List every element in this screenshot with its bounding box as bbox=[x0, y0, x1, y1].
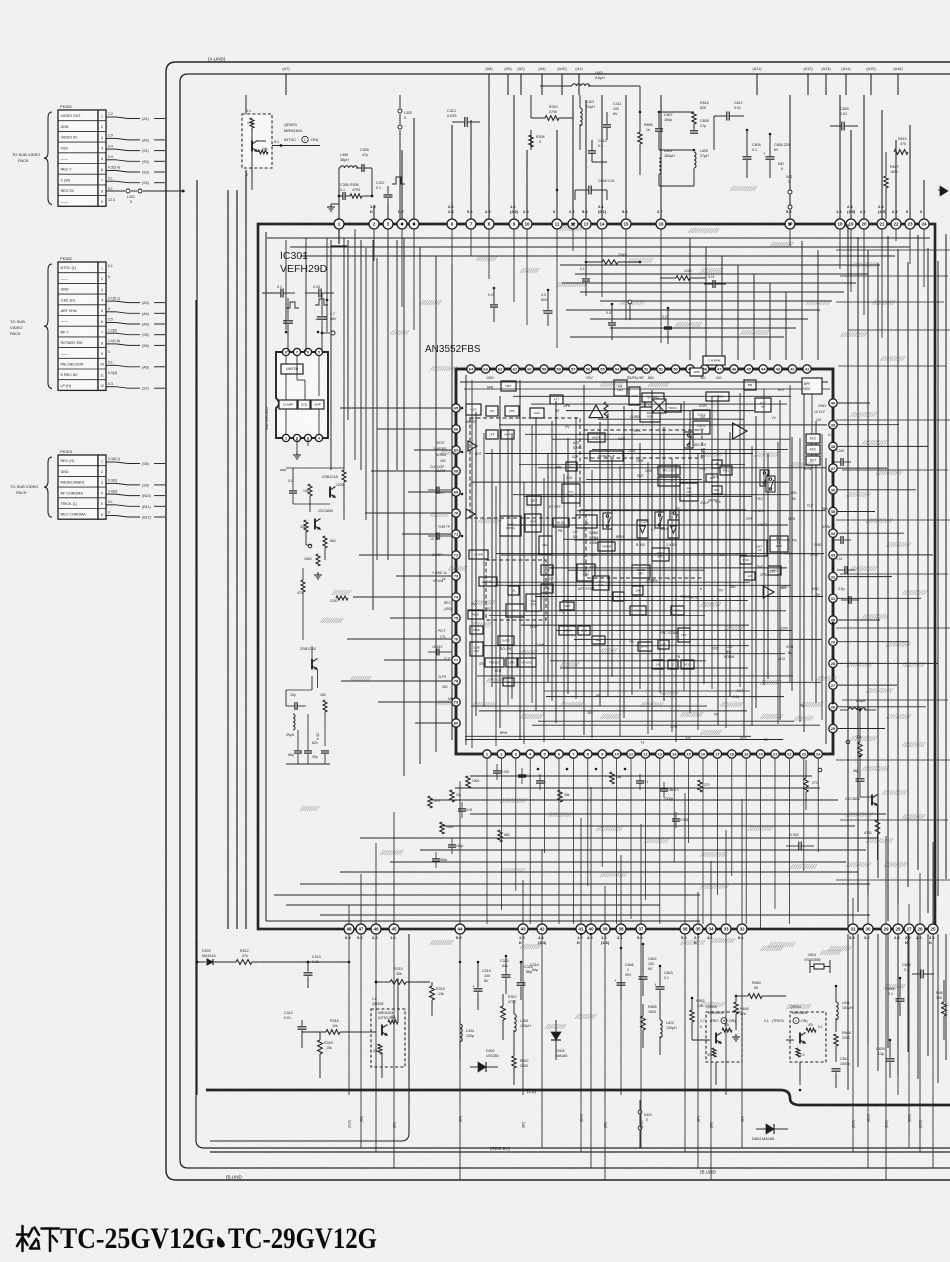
function block WEX bbox=[527, 496, 541, 505]
function block DET bbox=[592, 636, 605, 644]
wire QR303 top to bus bbox=[245, 95, 247, 114]
wire QR303 collector right bbox=[272, 145, 320, 147]
IC301 pin 48 bbox=[344, 924, 354, 934]
wire loop bottom under box bbox=[210, 934, 409, 1141]
IC301 pin 47 bbox=[356, 924, 366, 934]
triangle amp top bbox=[589, 405, 603, 418]
function block CK DET bbox=[658, 477, 680, 486]
AN3552FBS pin 58 bbox=[554, 365, 562, 373]
AN3552FBS pin 40 bbox=[829, 399, 837, 407]
IC301 pin 39 bbox=[600, 924, 610, 934]
wire drop from (A2) bbox=[520, 74, 522, 95]
IC301 pin 41 bbox=[576, 924, 586, 934]
AN3552FBS pin 50 bbox=[671, 365, 679, 373]
IC301 pin 26 bbox=[915, 924, 925, 934]
AN3552FBS pin 21 bbox=[771, 750, 779, 758]
AN3552FBS pin 51 bbox=[657, 365, 665, 373]
wire PK301 pin 3 to (A2) bbox=[106, 137, 116, 139]
AN3552FBS pin 38 bbox=[829, 442, 837, 450]
AN3552FBS pin 26 bbox=[829, 703, 837, 711]
component 0.01 under AN bbox=[458, 808, 466, 810]
component 11k under AN bbox=[450, 790, 454, 802]
ACC box 2 bbox=[806, 445, 820, 454]
AN3552FBS pin 15 bbox=[684, 750, 692, 758]
function block CACC bbox=[693, 410, 710, 419]
wire verticals top-right band inside IC301 bbox=[689, 238, 691, 360]
function block HPLIM bbox=[479, 577, 497, 586]
wire PK301 pin 6 to (S3) bbox=[106, 170, 116, 172]
ground rail lower left bbox=[286, 763, 330, 765]
function block VCO bbox=[681, 660, 694, 669]
AN3552FBS pin 49 bbox=[686, 365, 694, 373]
function block B GPAN bbox=[642, 393, 664, 402]
function block HPF bbox=[541, 565, 553, 575]
function block NC bbox=[508, 586, 519, 595]
triangle pin70 bbox=[466, 509, 475, 519]
AN3552FBS pin 13 bbox=[656, 750, 664, 758]
IC301 pin 4 bbox=[397, 219, 407, 229]
IC301 pin 18 bbox=[835, 219, 845, 229]
wire QR303 bottom down bbox=[251, 168, 253, 190]
component 18k under AN bbox=[610, 772, 614, 784]
wire drop from (A10) bbox=[561, 74, 563, 95]
CCD box bbox=[298, 400, 310, 409]
component 160p under AN bbox=[448, 844, 456, 846]
AN3552FBS pin 23 bbox=[800, 750, 808, 758]
X box bbox=[652, 399, 666, 413]
wire PK302 pin 7 to (S5) bbox=[106, 332, 116, 334]
ground for filter bbox=[331, 203, 339, 205]
AN3552FBS pin 47 bbox=[715, 365, 723, 373]
component 270 under AN bbox=[698, 780, 702, 792]
wire drop from (A15) bbox=[870, 74, 872, 95]
open terminal band bbox=[628, 300, 632, 304]
IC301 pin 25 bbox=[928, 924, 938, 934]
function block VBLK GEN bbox=[577, 564, 595, 581]
IC301 pin 19 bbox=[846, 219, 856, 229]
AN3552FBS pin 17 bbox=[713, 750, 721, 758]
AN3552FBS pin 1 bbox=[483, 750, 491, 758]
function block AMP bbox=[501, 430, 514, 439]
limiter IC bottom pin 1 bbox=[282, 434, 289, 441]
AN3552FBS pin 39 bbox=[829, 421, 837, 429]
component 1 under AN bbox=[536, 780, 544, 782]
wire mid horizontals bbox=[286, 467, 344, 469]
component 33k under AN bbox=[558, 790, 562, 802]
wire PK301 pin 1 to (A1) bbox=[106, 116, 116, 118]
function block 80 bbox=[712, 460, 722, 468]
AN3552FBS pin 55 bbox=[598, 365, 606, 373]
function block GATE bbox=[498, 636, 514, 645]
wire buses inside IC301 bottom band bbox=[274, 894, 700, 896]
AN3552FBS pin 8 bbox=[584, 750, 592, 758]
component 680 under AN bbox=[498, 830, 502, 842]
component 0.033 under AN bbox=[672, 818, 680, 820]
AN3552FBS pin 72 bbox=[452, 551, 460, 559]
IC301 pin 15 bbox=[621, 219, 631, 229]
IC301 pin 21 bbox=[877, 219, 887, 229]
wire mesh AN horizontals 2 bbox=[464, 388, 830, 390]
AN3552FBS pin 36 bbox=[829, 486, 837, 494]
wire mesh AN horizontals bbox=[460, 381, 828, 383]
AN3552FBS pin 41 bbox=[803, 365, 811, 373]
IC301 pin 31 bbox=[848, 924, 858, 934]
junction dots bbox=[285, 331, 288, 334]
function block 1/M bbox=[652, 660, 664, 669]
AN3552FBS pin 33 bbox=[829, 551, 837, 559]
pulse symbol limiter right bbox=[315, 299, 328, 305]
function block YNR MIX bbox=[525, 514, 541, 532]
component 1500 under AN bbox=[440, 822, 444, 834]
wire drop from (A14) bbox=[845, 74, 847, 95]
IC301 inner border bbox=[265, 232, 267, 921]
function block LIM2 bbox=[506, 658, 517, 667]
IC301 pin 8 bbox=[484, 219, 494, 229]
function block Y LPF bbox=[576, 515, 597, 528]
AN3552FBS pin 53 bbox=[628, 365, 636, 373]
AN3552FBS pin 37 bbox=[829, 464, 837, 472]
wire PK302 pin 5 to (A4) bbox=[106, 311, 116, 313]
function block AGC bbox=[530, 408, 544, 418]
wire cluster verticals bbox=[285, 240, 287, 330]
function block REF PIL DET C bbox=[770, 536, 788, 552]
IC301 pin 1 bbox=[334, 219, 344, 229]
QR303 internals bbox=[250, 118, 254, 128]
function block LPF bbox=[486, 430, 498, 439]
IC301 pin 34 bbox=[706, 924, 716, 934]
AN3552FBS pin 71 bbox=[452, 530, 460, 538]
AN3552FBS pin 34 bbox=[829, 529, 837, 537]
function block SCL bbox=[566, 462, 577, 471]
AN3552FBS pin 27 bbox=[829, 681, 837, 689]
wire PK302 pin 12 to (S7) bbox=[106, 386, 116, 388]
function block MIX bbox=[505, 406, 519, 416]
IC301 pin 43 bbox=[518, 924, 528, 934]
wire PK303 pin 6 to (B12) bbox=[106, 515, 116, 517]
wire C5 bus thick bbox=[206, 1090, 950, 1105]
wire PK302 pin 6 to (A5) bbox=[106, 322, 116, 324]
BPF 630K box bbox=[802, 378, 822, 394]
K302 jumper bottom bbox=[638, 1110, 642, 1114]
AN3552FBS pin 69 bbox=[452, 488, 460, 496]
IC301 pin 32 bbox=[737, 924, 747, 934]
AN3552FBS pin 68 bbox=[452, 467, 460, 475]
AN3552FBS pin 80 bbox=[452, 719, 460, 727]
wire QR305 bbox=[692, 1039, 710, 1041]
wire mesh AN verticals 2 bbox=[471, 380, 473, 748]
ground near R849 bbox=[735, 1034, 737, 1037]
limiter IC top pin 7 bbox=[293, 348, 300, 355]
connector PK301 outline bbox=[58, 110, 98, 206]
function block VXD bbox=[768, 566, 781, 575]
PK301 brace bbox=[44, 112, 52, 204]
IC301 pin 36 bbox=[680, 924, 690, 934]
AN3552FBS pin 64 bbox=[467, 365, 475, 373]
wire ticks right bundle bbox=[836, 249, 950, 251]
component 0.022 under AN bbox=[493, 770, 501, 772]
limiter IC bottom pin 2 bbox=[293, 434, 300, 441]
IC301 pin 42 bbox=[537, 924, 547, 934]
wire buses inside IC301 top band bbox=[267, 237, 930, 239]
function block 180 bbox=[706, 474, 718, 482]
function block ATT bbox=[550, 395, 563, 404]
wire filter loop bbox=[339, 168, 372, 196]
AN3552FBS pin 70 bbox=[452, 509, 460, 517]
wire frame loop 2 bbox=[180, 74, 950, 1168]
diode right edge bbox=[938, 189, 946, 191]
function block FSO bbox=[740, 556, 752, 564]
function block BGP GEN bbox=[640, 407, 660, 422]
cap below 0.1 bbox=[283, 320, 293, 322]
transistor QR303 dashed box bbox=[242, 114, 272, 168]
AMP box bbox=[311, 400, 324, 409]
IC301 pin 35 bbox=[693, 924, 703, 934]
function block HSS bbox=[466, 404, 481, 415]
function block REC APC bbox=[652, 548, 669, 561]
IC301 top edge wire bbox=[258, 223, 935, 225]
L301 jumper bbox=[106, 190, 125, 192]
limiter IC top pin 5 bbox=[315, 348, 322, 355]
AN3552FBS pin 63 bbox=[481, 365, 489, 373]
open terminal circles right bbox=[818, 768, 822, 772]
limiter IC top pin 8 bbox=[282, 348, 289, 355]
function block SUB LPF bbox=[470, 642, 483, 656]
function block 1/2 bbox=[613, 592, 624, 601]
AN3552FBS pin 52 bbox=[642, 365, 650, 373]
caps at left pins bbox=[436, 487, 438, 494]
AN3552FBS pin 73 bbox=[452, 572, 460, 580]
function block CNR bbox=[629, 387, 640, 405]
function block MUTE bbox=[588, 433, 605, 442]
wire REG 8V bus bbox=[210, 1151, 950, 1153]
wire PK303 pin 3 to (S9) bbox=[106, 482, 116, 484]
function block CORR bbox=[469, 550, 488, 559]
function block HV2 KILL bbox=[593, 576, 609, 590]
IC301 pin 30 bbox=[863, 924, 873, 934]
AN3552FBS pin 45 bbox=[744, 365, 752, 373]
wire PK302 pin 4 to (A3) bbox=[106, 300, 116, 302]
wire drop from (A13) bbox=[825, 74, 827, 95]
wire stubs from AN left pins to left circuits bbox=[340, 407, 451, 409]
IC301 pin 13 bbox=[581, 219, 591, 229]
wire drop from (A8) bbox=[488, 74, 490, 95]
AN3552FBS pin 65 bbox=[452, 404, 460, 412]
wire frame loop 3 bbox=[196, 300, 950, 1148]
wire PK303 pin 1 to (S8) bbox=[106, 461, 116, 463]
function block TRICK bbox=[664, 404, 681, 412]
dashed region 3 bbox=[586, 510, 704, 578]
wire PK301 pin 5 to (S2) bbox=[106, 159, 116, 161]
AN3552FBS pin 30 bbox=[829, 616, 837, 624]
triangle FSC bbox=[763, 586, 774, 598]
limiter IC top pin 6 bbox=[304, 348, 311, 355]
IC301 pin 46 bbox=[371, 924, 381, 934]
CLAMP box bbox=[279, 400, 297, 409]
IC301 pin 29 bbox=[881, 924, 891, 934]
PK302 brace bbox=[44, 264, 52, 388]
function block NLE DTE bbox=[526, 594, 541, 611]
connector PK303 outline bbox=[58, 455, 98, 519]
AN3552FBS pin 11 bbox=[627, 750, 635, 758]
AN3552FBS pin 62 bbox=[496, 365, 504, 373]
AN3552FBS pin 78 bbox=[452, 677, 460, 685]
function block BPH6 bbox=[638, 642, 652, 651]
inductor L302 jumper bbox=[399, 95, 401, 108]
function block APB bbox=[690, 368, 703, 376]
wire QR308 bbox=[361, 1031, 376, 1033]
AN3552FBS pin 5 bbox=[540, 750, 548, 758]
AN3552FBS pin 46 bbox=[730, 365, 738, 373]
wire top-mid hookups bbox=[640, 86, 714, 186]
function block 80b bbox=[712, 486, 722, 494]
function block URO bbox=[560, 602, 574, 610]
AN3552FBS pin 57 bbox=[569, 365, 577, 373]
AN3552FBS pin 32 bbox=[829, 572, 837, 580]
IC301 pin 14 bbox=[597, 219, 607, 229]
resistor beside triangle bbox=[604, 402, 608, 418]
AN3552FBS pin 19 bbox=[742, 750, 750, 758]
wire verticals above bottom pins bbox=[348, 905, 350, 924]
ACC box 1 bbox=[806, 434, 820, 443]
function block FPC DET bbox=[658, 466, 680, 475]
function block KP bbox=[486, 406, 498, 416]
transistor QR308 dashed bbox=[371, 1009, 405, 1067]
wire right bundle lower verticals bbox=[847, 934, 849, 1090]
function block NOISE CLIP bbox=[590, 451, 623, 461]
function block DET X2 bbox=[752, 540, 767, 556]
AN3552FBS pin 25 bbox=[829, 724, 837, 732]
function block CX bbox=[645, 400, 656, 409]
AN3552FBS pin 66 bbox=[452, 425, 460, 433]
wire drop from (A9) bbox=[507, 74, 509, 95]
component 560p under AN bbox=[432, 858, 440, 860]
wire PK301 pin 4 to (S1) bbox=[106, 148, 116, 150]
AN3552FBS pin 7 bbox=[569, 750, 577, 758]
wire drop from (A12) bbox=[807, 74, 809, 95]
triangle amp mid-right bbox=[733, 423, 747, 439]
wire PK302 pin 8 to (S6) bbox=[106, 343, 116, 345]
IC301 pin 12 bbox=[568, 219, 578, 229]
AN3552FBS pin 60 bbox=[525, 365, 533, 373]
AN3552FBS pin 6 bbox=[555, 750, 563, 758]
AN3552FBS pin 42 bbox=[788, 365, 796, 373]
AN3552FBS pin 48 bbox=[701, 365, 709, 373]
IC301 hybrid module outline bbox=[258, 224, 935, 929]
wire drop from (A11) bbox=[756, 74, 758, 95]
IC301 pin 38 bbox=[616, 924, 626, 934]
component 0.1 under AN bbox=[636, 780, 644, 782]
wire verticals inside IC301 from top pins bbox=[338, 229, 340, 238]
limiter wiring bbox=[285, 356, 287, 364]
diode D804 MA166 bbox=[766, 1124, 774, 1134]
IC301 pin 23 bbox=[905, 219, 915, 229]
function block PH1 bbox=[720, 466, 732, 475]
function block CACC DET bbox=[693, 421, 710, 434]
IC301 pin 44 bbox=[455, 924, 465, 934]
function block DET bbox=[501, 381, 516, 391]
triangle pin67 bbox=[468, 441, 477, 451]
function block 1/4 bbox=[744, 572, 755, 580]
wire left inner vertical 3 bbox=[236, 190, 238, 929]
function block MOD bbox=[468, 610, 483, 619]
AN3552FBS pin 24 bbox=[814, 750, 822, 758]
wire drop from (A4) bbox=[541, 74, 543, 95]
function block C.M.BPM bbox=[703, 356, 725, 365]
IC301 pin 27 bbox=[904, 924, 914, 934]
function block MDE bbox=[470, 626, 483, 634]
AN3552FBS pin 18 bbox=[728, 750, 736, 758]
title kanji matsushita vector glyphs bbox=[17, 1226, 59, 1251]
caps right col bbox=[840, 458, 842, 466]
wire bottom verticals bbox=[348, 934, 350, 1095]
AN3552FBS pin 14 bbox=[670, 750, 678, 758]
LIMITER box bbox=[281, 364, 303, 374]
wire mesh AN verticals bbox=[465, 375, 467, 745]
function block 1/R bbox=[658, 640, 669, 649]
wire verticals below AN bottom to IC bottom bbox=[486, 759, 488, 924]
PK303 brace bbox=[44, 457, 52, 517]
IC301 pin 5 bbox=[409, 219, 419, 229]
photocopy hatch smudges bbox=[688, 228, 719, 233]
IC301 pin 40 bbox=[586, 924, 596, 934]
function block LIM bbox=[541, 584, 553, 593]
function block TIMER bbox=[598, 542, 615, 551]
switch boxes various bbox=[603, 513, 612, 529]
function block LPX bbox=[678, 628, 690, 642]
wire drop from (A16) bbox=[897, 74, 899, 95]
IC301 pin 10 bbox=[522, 219, 532, 229]
dashed region 1 bbox=[470, 418, 580, 518]
AN3552FBS pin 43 bbox=[774, 365, 782, 373]
component 0.1 under AN bbox=[518, 774, 526, 776]
component 470 under AN bbox=[428, 796, 432, 808]
IC301 pin 22 bbox=[891, 219, 901, 229]
DET box right bbox=[806, 456, 820, 465]
connector PK302 outline bbox=[58, 262, 98, 390]
IC301 pin 2 bbox=[369, 219, 379, 229]
AN3552FBS pin 75 bbox=[452, 614, 460, 622]
transistor QR305 dashed bbox=[706, 1012, 742, 1062]
IC301 pin 28 bbox=[893, 924, 903, 934]
AN3552FBS pin 28 bbox=[829, 659, 837, 667]
function block -1 bbox=[668, 660, 678, 669]
AN3552FBS pin 29 bbox=[829, 638, 837, 646]
AN3552FBS pin 77 bbox=[452, 656, 460, 664]
junction and open terminal bbox=[321, 332, 324, 335]
function block MUTE DET bbox=[632, 565, 650, 578]
AN3552FBS pin 35 bbox=[829, 507, 837, 515]
wire frame A.UND top/left/bottom outer loop bbox=[166, 62, 950, 1180]
function block 1/8 bbox=[632, 586, 643, 595]
function block PB PHI VXD bbox=[680, 483, 698, 501]
AN3552FBS pin 3 bbox=[512, 750, 520, 758]
component 18k 0.1 under AN bbox=[660, 788, 668, 790]
V-boxes B:500 C:4405 bbox=[637, 520, 648, 538]
op-amp block IC limiter/clamp/ccd/amp bbox=[276, 352, 328, 438]
IC301 pin 20 bbox=[859, 219, 869, 229]
IC301 pin 24 bbox=[919, 219, 929, 229]
AN3552FBS pin 10 bbox=[612, 750, 620, 758]
wire verticals left band inside IC301 bbox=[403, 238, 405, 776]
function block FMDEM bbox=[485, 658, 504, 667]
IC301 pin 11 bbox=[552, 219, 562, 229]
AN3552FBS pin 67 bbox=[452, 446, 460, 454]
wire stubs from AN right pins to right bundle bbox=[838, 402, 870, 404]
wire PK302 pin 10 to (A6) bbox=[106, 364, 116, 366]
function block LPF 630K bbox=[706, 392, 729, 401]
AN3552FBS pin 76 bbox=[452, 635, 460, 643]
wire left inner vertical 2 bbox=[227, 190, 229, 929]
